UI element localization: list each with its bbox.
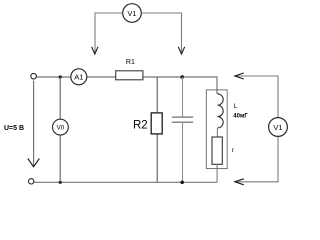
svg-text:40мГ: 40мГ xyxy=(233,114,248,120)
voltmeter V1 (top) xyxy=(123,4,142,23)
coil model box xyxy=(206,90,227,169)
capacitor C xyxy=(172,116,193,118)
node junction top V0 branch xyxy=(59,75,62,78)
source voltage arrow U xyxy=(33,81,35,167)
resistor r xyxy=(212,137,222,164)
wire L to r xyxy=(216,128,218,137)
voltmeter V0 xyxy=(53,119,69,135)
wire capacitor branch upper xyxy=(182,77,184,117)
svg-text:R2: R2 xyxy=(133,119,148,131)
wire top rail xyxy=(36,77,217,94)
svg-text:A1: A1 xyxy=(74,73,83,82)
svg-text:L: L xyxy=(234,103,238,110)
node junction bottom V0 branch xyxy=(59,181,62,184)
wire R2 branch xyxy=(156,77,158,182)
wire right voltmeter bottom lead xyxy=(235,136,278,181)
inductor L xyxy=(218,94,224,128)
terminal top-left xyxy=(31,73,37,79)
resistor R2 xyxy=(151,113,162,134)
arrow down at node after R1 xyxy=(178,47,184,54)
arrow left at bottom node xyxy=(235,179,244,185)
wire right voltmeter top lead xyxy=(235,76,278,118)
wire bottom rail xyxy=(34,181,217,183)
node junction top capacitor branch xyxy=(180,75,184,79)
svg-text:V0: V0 xyxy=(57,125,65,132)
svg-text:V1: V1 xyxy=(273,123,282,132)
wire top V1 left lead xyxy=(95,13,123,54)
wire r to bottom rail xyxy=(216,164,218,182)
resistor R1 xyxy=(116,71,143,80)
wire V0 branch xyxy=(59,77,61,182)
svg-text:U=5 В: U=5 В xyxy=(4,125,24,132)
node junction bottom capacitor branch xyxy=(180,181,184,185)
arrow left at top node xyxy=(235,73,244,79)
terminal bottom-left xyxy=(29,179,34,184)
ammeter A1 xyxy=(71,69,87,85)
svg-text:V1: V1 xyxy=(127,9,136,18)
wire top V1 right lead xyxy=(141,13,182,54)
svg-text:R1: R1 xyxy=(126,59,135,66)
arrow down at node before R1 xyxy=(92,47,98,54)
wire capacitor branch lower xyxy=(182,123,184,183)
voltmeter V1 (right) xyxy=(269,118,288,137)
